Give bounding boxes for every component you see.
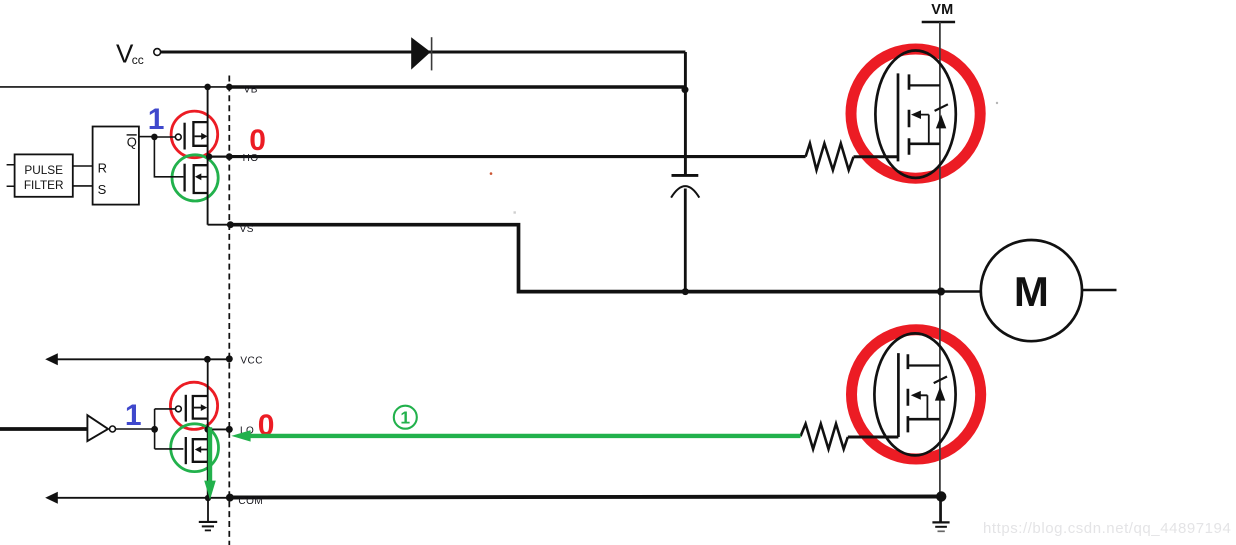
svg-text:VB: VB [244, 84, 258, 95]
svg-text:COM: COM [238, 496, 263, 507]
svg-text:0: 0 [249, 124, 266, 157]
svg-text:M: M [1014, 268, 1049, 315]
svg-text:https://blog.csdn.net/qq_44897: https://blog.csdn.net/qq_44897194 [983, 520, 1231, 537]
svg-text:1: 1 [125, 399, 142, 432]
svg-text:VS: VS [240, 224, 254, 235]
svg-text:1: 1 [400, 408, 410, 428]
svg-text:S: S [98, 182, 107, 197]
svg-text:R: R [98, 160, 107, 175]
svg-text:PULSE: PULSE [24, 163, 63, 177]
svg-text:VCC: VCC [240, 355, 263, 366]
svg-text:Q: Q [127, 134, 137, 149]
svg-text:1: 1 [148, 103, 165, 136]
svg-text:VM: VM [931, 2, 953, 18]
svg-text:cc: cc [132, 53, 144, 67]
svg-text:FILTER: FILTER [24, 178, 64, 192]
